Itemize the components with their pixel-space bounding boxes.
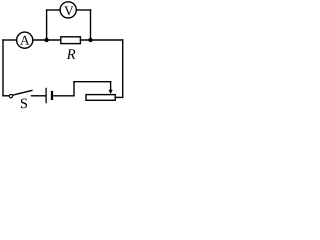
wire switch to battery	[32, 95, 46, 97]
wire battery to rheostat step	[53, 95, 74, 97]
wire resistor to top-right corner	[81, 39, 123, 41]
ammeter U2 circle	[17, 32, 33, 48]
wire main left corner to ammeter	[3, 39, 17, 41]
battery short plate	[51, 92, 53, 99]
wire right vertical	[122, 40, 124, 97]
wire top loop right horizontal	[76, 9, 90, 11]
resistor R body	[61, 37, 81, 44]
wire rheostat step vertical	[73, 82, 75, 96]
rheostat body	[86, 95, 115, 101]
wire ammeter to resistor	[33, 39, 60, 41]
wire wiper arm horizontal	[74, 81, 111, 83]
switch label S	[21, 99, 27, 109]
battery long plate	[45, 88, 47, 102]
wire left vertical	[2, 40, 4, 96]
voltmeter label V	[64, 6, 73, 15]
wire top loop left horizontal	[47, 9, 61, 11]
wiper arrowhead	[109, 90, 113, 94]
switch S blade	[13, 90, 32, 95]
ammeter label A	[20, 36, 29, 45]
junction node right voltmeter tap	[88, 38, 92, 42]
resistor value label R	[67, 49, 76, 59]
wiper arrow stem	[110, 82, 112, 91]
wire rheostat to right vertical	[116, 96, 123, 98]
wire bottom-left to switch	[3, 95, 9, 97]
switch S pivot circle	[9, 94, 12, 97]
wire top loop right vertical	[90, 10, 92, 40]
junction node left voltmeter tap	[44, 38, 48, 42]
voltmeter U1 circle	[60, 2, 76, 18]
wire top loop left vertical	[46, 10, 48, 40]
